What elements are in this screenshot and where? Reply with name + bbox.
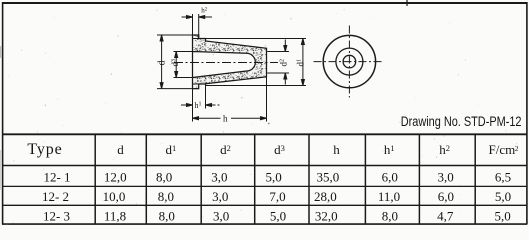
svg-text:8,0: 8,0: [156, 169, 172, 184]
wall section (stippled): flange + ring + cone with cavity: [193, 35, 267, 89]
table row 1: [43, 169, 511, 184]
svg-text:h: h: [333, 142, 340, 157]
extension left (flange left face extended up): [192, 14, 194, 35]
dimension h1 (bottom left): [181, 84, 220, 109]
svg-text:F/cm2: F/cm2: [489, 142, 519, 157]
svg-text:5,0: 5,0: [495, 189, 511, 204]
svg-text:5,0: 5,0: [270, 208, 286, 223]
horizontal lines: [2, 133, 527, 135]
table header text: [27, 141, 518, 158]
svg-text:5,0: 5,0: [494, 208, 510, 223]
svg-text:7,0: 7,0: [269, 189, 285, 204]
centerline of section: [174, 62, 278, 64]
extension right: [198, 14, 200, 39]
svg-text:35,0: 35,0: [317, 169, 340, 184]
outer frame top border: [3, 2, 527, 4]
svg-text:10,0: 10,0: [103, 189, 126, 204]
dimension d1 (right outer): [206, 39, 306, 86]
vertical lines: [94, 134, 96, 224]
svg-text:6,0: 6,0: [438, 189, 454, 204]
dimension d3 (cavity opening): [174, 52, 193, 78]
svg-text:8,0: 8,0: [159, 208, 175, 223]
svg-text:4,7: 4,7: [437, 208, 454, 223]
svg-text:12- 2: 12- 2: [42, 189, 69, 204]
vertical centerline: [348, 26, 350, 98]
table row 3: [43, 208, 511, 223]
svg-text:6,5: 6,5: [495, 169, 511, 184]
svg-text:11,8: 11,8: [104, 208, 126, 223]
inner circle: [343, 55, 356, 68]
svg-text:d: d: [117, 142, 124, 157]
svg-text:12- 3: 12- 3: [43, 208, 70, 223]
right seg arrow pointing left: [206, 104, 220, 106]
svg-text:8,0: 8,0: [382, 208, 398, 223]
extension line bottom: [157, 88, 199, 90]
svg-text:5,0: 5,0: [265, 169, 281, 184]
outer frame right border: [526, 2, 528, 225]
table row 2: [42, 189, 511, 204]
svg-text:d: d: [157, 61, 168, 66]
dimension h (bottom): [193, 77, 267, 122]
svg-text:11,0: 11,0: [378, 189, 400, 204]
dimension d (left, flange OD): [157, 35, 199, 89]
extension line top: [157, 34, 199, 36]
left extension (flange face down): [192, 89, 194, 122]
svg-text:12- 1: 12- 1: [43, 169, 70, 184]
svg-text:h: h: [223, 113, 228, 123]
middle circle: [336, 48, 363, 75]
horizontal centerline: [314, 61, 384, 63]
svg-text:6,0: 6,0: [382, 169, 398, 184]
dim line right seg with arrow pointing left: [199, 16, 212, 18]
svg-text:Drawing No. STD-PM-12: Drawing No. STD-PM-12: [401, 114, 522, 130]
tick mark on top border: [406, 0, 408, 6]
right extension (right face down): [266, 77, 268, 122]
svg-text:3,0: 3,0: [213, 208, 229, 223]
svg-text:32,0: 32,0: [315, 208, 338, 223]
dimension d2 (right inner): [267, 40, 289, 85]
svg-text:8,0: 8,0: [158, 189, 174, 204]
left seg arrow pointing right: [181, 104, 193, 106]
svg-text:3,0: 3,0: [211, 169, 227, 184]
dim line: [161, 36, 163, 89]
svg-text:12,0: 12,0: [104, 169, 127, 184]
svg-text:3,0: 3,0: [437, 169, 453, 184]
svg-text:28,0: 28,0: [314, 189, 337, 204]
svg-text:Type: Type: [27, 141, 62, 158]
dimension h2 (top): [182, 14, 213, 39]
svg-text:3,0: 3,0: [212, 189, 228, 204]
ring edge lines visible across flange: [193, 39, 199, 85]
dim line left seg with arrow pointing right: [182, 16, 193, 18]
extension right at ring end: [205, 84, 207, 109]
outside arrows: [284, 40, 286, 52]
outer frame left border: [2, 2, 4, 225]
outer circle: [323, 35, 375, 87]
